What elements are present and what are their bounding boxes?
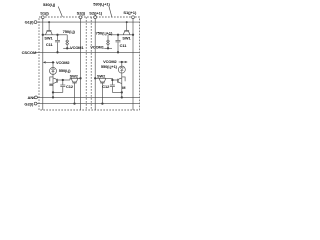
capacitor C11 (cell i,j) (46, 34, 60, 54)
source line S1(j+1) (123, 10, 137, 110)
transistor SW1 (cell i,j+1) (108, 21, 134, 40)
svg-text:C12: C12 (66, 84, 74, 89)
anode line ANO with terminal (28, 95, 140, 100)
svg-text:C11: C11 (120, 43, 128, 48)
svg-text:VCOM2: VCOM2 (56, 60, 70, 65)
svg-text:M: M (49, 82, 52, 87)
pixel cell box 530(i,j) dashed outline (39, 17, 140, 110)
capacitor C11 (cell i,j+1) (116, 34, 128, 54)
svg-text:SW1: SW1 (44, 36, 53, 41)
svg-text:530(i,j+1): 530(i,j+1) (93, 2, 110, 7)
VCOM2 stub (cell i,j+1) (103, 59, 127, 64)
svg-text:SW1: SW1 (122, 35, 131, 40)
pixel cell box 530(i,j+1) dashed outline (90, 17, 92, 110)
EL element 550(i,j) (50, 62, 72, 77)
svg-text:M: M (122, 85, 125, 90)
svg-text:CSCOM: CSCOM (22, 50, 37, 55)
switching transistor SW2 (cell i,j+1) (94, 74, 112, 105)
LC element 750(i,j+1) with VCOM1 stub (90, 30, 113, 49)
svg-text:750(i,j+1): 750(i,j+1) (96, 30, 113, 35)
svg-text:550(i,j): 550(i,j) (59, 68, 71, 73)
source line S2(j+1) (89, 11, 103, 110)
svg-text:SW2: SW2 (70, 74, 79, 79)
svg-text:S1(j+1): S1(j+1) (123, 10, 137, 15)
svg-text:VCOM1: VCOM1 (70, 45, 84, 50)
svg-text:SW2: SW2 (97, 74, 106, 79)
driving transistor M (cell i,j) (49, 77, 70, 99)
svg-text:S2(j): S2(j) (77, 11, 86, 16)
svg-text:C12: C12 (102, 84, 110, 89)
svg-text:VCOM2: VCOM2 (103, 59, 117, 64)
storage capacitor C12 (cell i,j+1) (102, 79, 122, 93)
svg-text:C11: C11 (46, 42, 54, 47)
transistor SW1 (cell i,j) (42, 21, 68, 40)
source line S1(j) (40, 11, 49, 110)
svg-text:G1(i): G1(i) (25, 20, 35, 25)
svg-text:550(i,j+1): 550(i,j+1) (101, 64, 118, 69)
gate line G1(i) with terminal (25, 20, 140, 25)
svg-text:530(i,j): 530(i,j) (43, 2, 56, 7)
svg-text:750(i,j): 750(i,j) (63, 29, 76, 34)
svg-text:S1(j): S1(j) (40, 11, 49, 16)
switching transistor SW2 (cell i,j) (70, 74, 82, 105)
svg-text:S2(j+1): S2(j+1) (89, 11, 103, 16)
source line S2(j) (77, 11, 86, 110)
svg-text:G2(i): G2(i) (24, 101, 34, 106)
common line CSCOM (22, 50, 140, 55)
driving transistor M (cell i,j+1) (112, 77, 125, 99)
VCOM2 stub (cell i,j) (44, 60, 71, 65)
storage capacitor C12 (cell i,j) (53, 79, 74, 93)
svg-text:VCOM1: VCOM1 (90, 44, 104, 49)
EL element 550(i,j+1) (101, 62, 125, 77)
label 530(i,j) with leader line (43, 2, 62, 17)
LC element 750(i,j) with VCOM1 stub (63, 29, 85, 50)
gate line G2(i) with terminal (24, 101, 139, 106)
label 530(i,j+1) with leader line (93, 2, 112, 17)
